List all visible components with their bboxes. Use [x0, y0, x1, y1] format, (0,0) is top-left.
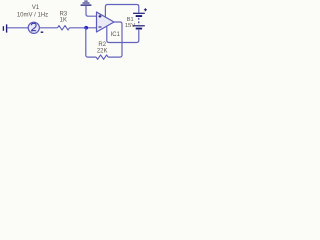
resistor R3	[58, 26, 70, 30]
op-amp IC1	[97, 12, 115, 32]
svg-text:1K: 1K	[60, 18, 67, 24]
svg-text:10mV / 1Hz: 10mV / 1Hz	[17, 12, 48, 18]
minus mark (inverting input)	[99, 26, 102, 28]
ground GND1 (left, earth style)	[3, 24, 6, 32]
V- pin wire to battery bottom rail	[107, 26, 139, 42]
plus mark (non-inverting input)	[99, 15, 102, 18]
junction dot	[84, 26, 88, 30]
svg-text:15V: 15V	[125, 23, 135, 29]
minus polarity mark of V1	[41, 32, 44, 33]
wire R2 to junction	[86, 28, 96, 57]
wire R3 to inverting input	[70, 27, 97, 29]
V+ pin wire to battery top	[105, 5, 138, 17]
output wire down to feedback row	[108, 22, 122, 57]
ground GND2 (top)	[81, 1, 92, 5]
battery B1	[133, 13, 145, 30]
AC source V1	[28, 22, 39, 33]
svg-text:IC1: IC1	[111, 32, 121, 38]
resistor R2	[96, 55, 108, 59]
plus polarity mark of B1	[144, 8, 147, 11]
svg-text:R2: R2	[98, 42, 106, 48]
wire ground to V1	[7, 27, 28, 29]
wire V1 to R3	[39, 27, 57, 29]
svg-text:22K: 22K	[97, 48, 108, 54]
svg-text:V1: V1	[32, 5, 40, 11]
wire GND2 to non-inverting input	[86, 6, 97, 17]
